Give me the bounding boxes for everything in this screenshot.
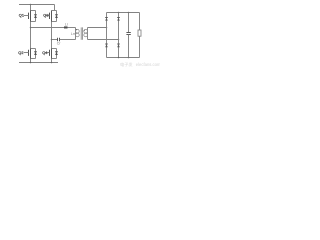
inductor Lr xyxy=(64,26,68,28)
node: bottom rail / Q4 source junction xyxy=(51,62,53,64)
transistor Q4 (MOSFET with body diode) xyxy=(45,49,58,59)
svg-text:elecfans.com: elecfans.com xyxy=(136,62,160,67)
rectifier top rail xyxy=(107,12,140,14)
node: top rail / Q1 drain junction xyxy=(30,4,32,6)
rectifier leg B wire xyxy=(118,13,120,58)
wire Cr to primary bottom xyxy=(60,39,76,41)
node A junction xyxy=(30,27,32,29)
load resistor R top lead xyxy=(139,13,141,31)
transistor Q3 (MOSFET with body diode) xyxy=(45,11,58,22)
svg-text:Cr: Cr xyxy=(57,41,62,45)
diode D3 (leg A lower) xyxy=(105,44,108,47)
resistor R load box xyxy=(138,30,141,36)
diode D2 (leg B upper) xyxy=(117,18,120,21)
node B junction xyxy=(51,39,53,41)
rectifier bottom rail xyxy=(107,57,140,59)
wire Q1 drain drop xyxy=(30,5,32,11)
load resistor R bottom lead xyxy=(139,36,141,57)
wire right leg Q3 source down through node B to Q4 drain xyxy=(51,22,53,49)
wire Q2 source to bottom rail xyxy=(30,59,32,63)
node: bottom rail at leg B xyxy=(118,57,120,59)
capacitor C plates xyxy=(126,33,130,35)
wire secondary bottom to rectifier leg B xyxy=(88,39,119,41)
node: top rail at capacitor xyxy=(128,12,130,14)
rectifier leg A wire xyxy=(106,13,108,58)
svg-text:Q1: Q1 xyxy=(19,12,24,17)
svg-text:Q3: Q3 xyxy=(43,12,48,17)
node: top rail at leg B xyxy=(118,12,120,14)
output capacitor C top lead xyxy=(128,13,130,33)
svg-text:电子发: 电子发 xyxy=(120,61,133,68)
wire left leg Q1 source to Q2 drain xyxy=(30,22,32,49)
transistor Q2 (MOSFET with body diode) xyxy=(24,49,37,59)
node: secondary top at leg A xyxy=(106,27,108,29)
wire node B to Cr xyxy=(52,39,58,41)
top DC rail xyxy=(19,4,55,6)
wire Q3 drain drop xyxy=(54,5,56,11)
node: bottom rail / Q2 source junction xyxy=(30,62,32,64)
diode D1 (leg A upper) xyxy=(105,18,108,21)
wire Lr to primary top xyxy=(68,27,76,29)
capacitor Cr xyxy=(58,38,60,42)
node: bottom rail at capacitor xyxy=(128,57,130,59)
svg-text:Q2: Q2 xyxy=(18,50,23,55)
wire Q4 source to bottom rail xyxy=(51,59,53,63)
node: secondary bottom at leg B xyxy=(118,39,120,41)
wire secondary top to rectifier leg A xyxy=(88,27,107,29)
transistor Q1 (MOSFET with body diode) xyxy=(24,11,37,22)
bottom DC rail xyxy=(19,62,58,64)
transformer T primary winding xyxy=(76,28,80,40)
capacitor C bottom lead xyxy=(128,35,130,58)
svg-text:Lr: Lr xyxy=(65,23,69,27)
transformer T secondary winding xyxy=(84,28,88,40)
transformer core xyxy=(81,27,82,39)
wire node A to Lr xyxy=(31,27,65,29)
diode D4 (leg B lower) xyxy=(117,44,120,47)
svg-text:Q4: Q4 xyxy=(42,50,48,55)
